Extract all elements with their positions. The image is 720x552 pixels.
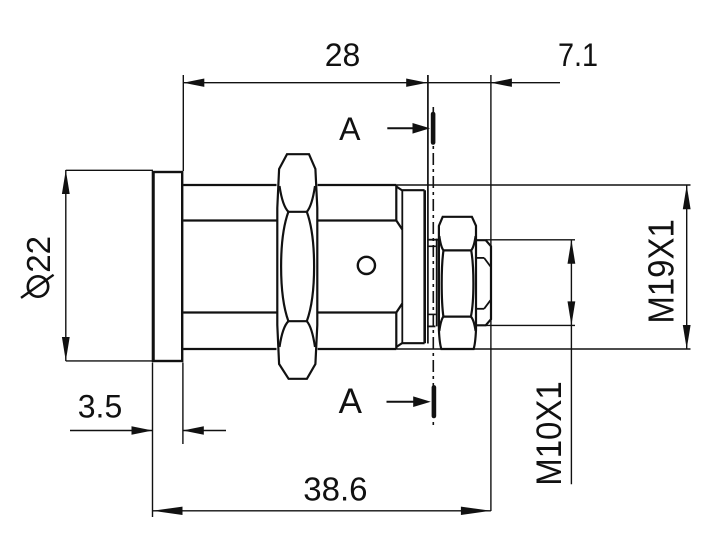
svg-text:A: A <box>339 382 363 421</box>
svg-text:38.6: 38.6 <box>303 471 367 508</box>
svg-text:7.1: 7.1 <box>558 38 598 74</box>
svg-text:A: A <box>339 111 361 147</box>
svg-text:28: 28 <box>325 37 361 73</box>
svg-text:M19X1: M19X1 <box>642 219 682 324</box>
svg-text:M10X1: M10X1 <box>530 381 569 486</box>
svg-text:3.5: 3.5 <box>78 389 122 425</box>
svg-text:22: 22 <box>20 236 57 273</box>
